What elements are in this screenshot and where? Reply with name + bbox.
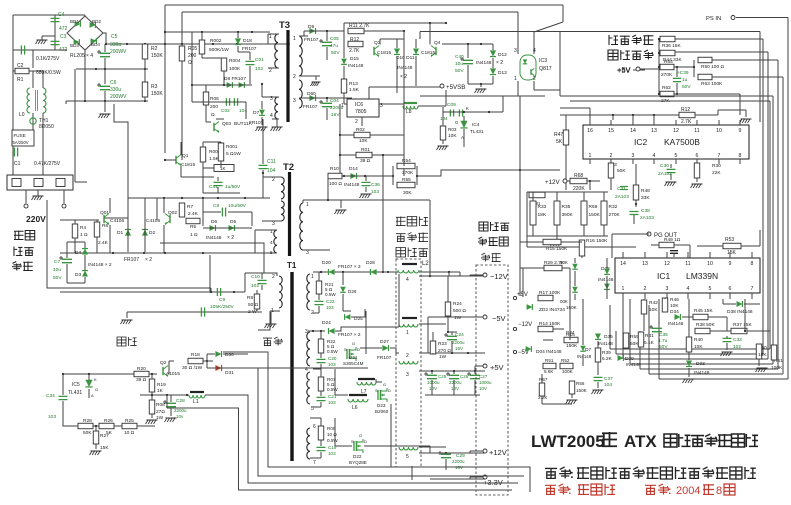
svg-text:+5V: +5V (490, 363, 504, 372)
svg-text:PS IN: PS IN (706, 16, 721, 22)
svg-text:5: 5 (675, 153, 678, 159)
svg-text:10 Ω: 10 Ω (327, 432, 337, 437)
svg-text:0.5W: 0.5W (325, 292, 336, 297)
svg-text:2: 2 (644, 286, 647, 292)
svg-text:D7: D7 (253, 110, 259, 116)
svg-text:10V: 10V (479, 386, 487, 391)
svg-text:30K: 30K (403, 190, 412, 196)
svg-text:IN4148: IN4148 (476, 60, 492, 66)
svg-text:15K: 15K (727, 250, 737, 256)
svg-text:8: 8 (739, 153, 742, 159)
svg-text:R38 50K: R38 50K (696, 322, 715, 328)
svg-text:200WV: 200WV (110, 94, 127, 100)
svg-text:0.1K/275V: 0.1K/275V (36, 56, 60, 62)
svg-text:R1: R1 (17, 77, 24, 83)
svg-text:10u: 10u (455, 61, 463, 67)
svg-text:330u: 330u (110, 87, 121, 93)
svg-text:0.5W: 0.5W (327, 387, 338, 392)
svg-text:IN4148: IN4148 (577, 354, 592, 359)
svg-text:R001: R001 (226, 144, 238, 150)
svg-text:C05: C05 (330, 36, 339, 42)
svg-text:1: 1 (406, 330, 409, 336)
svg-text:D: D (364, 439, 367, 444)
svg-text:C1815: C1815 (421, 50, 435, 56)
svg-text:ZD2 IN4734: ZD2 IN4734 (539, 307, 565, 313)
svg-text:D18: D18 (243, 38, 252, 44)
svg-text:200WV: 200WV (110, 49, 127, 55)
svg-text:C02: C02 (221, 108, 230, 114)
svg-text:14: 14 (620, 261, 626, 267)
svg-text:D30: D30 (225, 352, 234, 358)
svg-text:50K: 50K (560, 260, 568, 265)
svg-text:Q03: Q03 (222, 121, 231, 127)
svg-text:R52: R52 (561, 358, 570, 363)
svg-text:C27: C27 (479, 374, 488, 379)
svg-text:7: 7 (751, 286, 754, 292)
svg-text:D20: D20 (322, 260, 331, 266)
svg-text:8: 8 (716, 485, 722, 497)
svg-text:2: 2 (272, 274, 275, 280)
svg-text:13: 13 (651, 128, 657, 134)
svg-text:Q2: Q2 (160, 360, 167, 366)
svg-text:D: D (357, 347, 360, 352)
svg-text:D27: D27 (380, 339, 389, 345)
svg-text:S305C4M: S305C4M (343, 361, 364, 366)
svg-text:D31: D31 (225, 370, 234, 376)
svg-text:FUSE: FUSE (14, 133, 26, 138)
svg-text:3: 3 (406, 372, 409, 378)
svg-text:−5V: −5V (492, 314, 506, 323)
svg-text:6: 6 (729, 286, 732, 292)
svg-text:16: 16 (587, 128, 593, 134)
svg-text:A1015: A1015 (166, 371, 180, 377)
svg-text:IN4148: IN4148 (598, 341, 613, 346)
svg-text:1W: 1W (439, 354, 447, 360)
svg-text:D04 IN4148: D04 IN4148 (536, 349, 562, 355)
svg-text:4: 4 (653, 153, 656, 159)
svg-text:150K: 150K (566, 343, 578, 349)
svg-text:Q4: Q4 (434, 40, 441, 46)
svg-text:50V: 50V (682, 84, 691, 90)
svg-text:11: 11 (694, 128, 699, 134)
svg-text:L1: L1 (193, 399, 199, 405)
svg-text:D4: D4 (75, 250, 81, 256)
svg-text:103: 103 (328, 362, 336, 367)
svg-text:C28: C28 (176, 398, 185, 404)
svg-text:T1: T1 (287, 261, 297, 270)
svg-text:R16 150K: R16 150K (586, 238, 608, 244)
svg-text:R48: R48 (641, 188, 650, 194)
svg-text:R32: R32 (609, 204, 618, 210)
svg-text:R36 15K: R36 15K (662, 43, 681, 49)
svg-text:16V: 16V (331, 112, 340, 118)
svg-text:R24: R24 (453, 301, 462, 307)
svg-text:3: 3 (666, 286, 669, 292)
svg-text:6: 6 (696, 153, 699, 159)
svg-text:10: 10 (716, 128, 722, 134)
svg-text:R39: R39 (602, 350, 611, 356)
svg-text:R27: R27 (100, 433, 109, 439)
svg-text:220V: 220V (26, 214, 46, 224)
svg-text:C04: C04 (330, 98, 339, 104)
svg-text:R15 150K: R15 150K (546, 246, 568, 252)
svg-text:C34: C34 (46, 393, 55, 399)
svg-text:R19: R19 (157, 382, 166, 388)
svg-text:1 Ω: 1 Ω (190, 232, 198, 238)
svg-text:10 Ω: 10 Ω (124, 430, 135, 436)
svg-text:BUT11A: BUT11A (234, 121, 253, 127)
svg-text:8D050: 8D050 (39, 124, 54, 130)
svg-text:IN4148: IN4148 (206, 235, 222, 241)
svg-text:D3: D3 (75, 272, 81, 278)
svg-text:5A/250V: 5A/250V (13, 140, 29, 145)
svg-text:1K: 1K (157, 388, 164, 394)
svg-text:BYQ28E: BYQ28E (349, 460, 367, 465)
svg-text:D14: D14 (349, 166, 358, 172)
svg-text:FR107 × 3: FR107 × 3 (338, 264, 361, 270)
svg-text:4: 4 (533, 48, 536, 54)
svg-text:2: 2 (355, 119, 358, 125)
svg-text:2.2K: 2.2K (538, 395, 548, 400)
svg-text::: : (568, 485, 572, 497)
svg-text:L8: L8 (406, 109, 412, 115)
svg-text:C6: C6 (110, 80, 117, 86)
svg-text:1: 1 (341, 103, 344, 109)
svg-text:2 W: 2 W (248, 309, 257, 315)
svg-text:1u: 1u (682, 77, 688, 83)
svg-text:IC3: IC3 (539, 58, 547, 64)
svg-text:472: 472 (59, 26, 68, 32)
svg-text:D: D (388, 388, 391, 393)
svg-text:100K: 100K (229, 66, 241, 72)
svg-text:C38: C38 (641, 208, 650, 214)
svg-text:10u: 10u (53, 267, 61, 273)
svg-text:00K: 00K (560, 299, 568, 304)
svg-text:270K: 270K (609, 212, 621, 218)
svg-text:5: 5 (709, 286, 712, 292)
svg-text:C10: C10 (251, 274, 260, 280)
svg-text:R13: R13 (349, 81, 358, 87)
svg-text:D24: D24 (322, 320, 331, 326)
svg-text:1: 1 (622, 286, 625, 292)
svg-text:K: K (94, 377, 97, 382)
svg-text:33K: 33K (641, 195, 650, 201)
svg-text:R7: R7 (187, 204, 193, 210)
svg-text:D21: D21 (349, 355, 358, 360)
svg-text:C5: C5 (111, 34, 118, 40)
svg-text:50 Ω: 50 Ω (248, 302, 259, 308)
svg-text:50K: 50K (617, 168, 626, 174)
svg-text:10u/50V: 10u/50V (228, 203, 247, 209)
svg-text:10: 10 (707, 261, 713, 267)
svg-text:D2: D2 (149, 230, 155, 236)
svg-text:R41: R41 (645, 333, 654, 339)
svg-text:1000u: 1000u (479, 380, 492, 385)
svg-text:C36: C36 (371, 182, 380, 188)
svg-text:R004: R004 (229, 58, 241, 64)
svg-text:1: 1 (514, 76, 517, 82)
svg-text:R63 100K: R63 100K (701, 81, 723, 87)
svg-text:16V: 16V (455, 346, 463, 351)
svg-text:R30: R30 (712, 163, 721, 169)
svg-text:D23: D23 (377, 403, 386, 408)
svg-text:FR107: FR107 (377, 355, 392, 361)
svg-text:7: 7 (313, 460, 316, 466)
svg-text:TL431: TL431 (68, 390, 82, 396)
svg-text:R56: R56 (576, 381, 585, 386)
svg-text:18K: 18K (538, 212, 547, 218)
svg-text:2.7K: 2.7K (349, 48, 360, 54)
svg-text:6.2K: 6.2K (602, 356, 613, 362)
svg-text:102: 102 (733, 344, 741, 350)
svg-text:IN4148: IN4148 (344, 182, 360, 188)
svg-text:1u/50V: 1u/50V (225, 184, 241, 190)
svg-text:C1815: C1815 (181, 162, 195, 168)
svg-text:R2: R2 (151, 46, 158, 52)
svg-text:C1815: C1815 (377, 50, 391, 56)
svg-text:D28: D28 (366, 260, 375, 266)
svg-text:G: G (359, 433, 362, 438)
svg-text:10K: 10K (359, 138, 368, 144)
svg-text:D38 IN4148: D38 IN4148 (727, 309, 753, 315)
svg-text:2.7K: 2.7K (681, 119, 692, 125)
svg-text:S: S (344, 347, 347, 352)
svg-text:R53: R53 (725, 237, 734, 243)
svg-text:103: 103 (326, 305, 334, 310)
svg-text:39 Ω: 39 Ω (136, 377, 147, 383)
svg-text:100K: 100K (562, 369, 574, 374)
svg-text:103: 103 (328, 400, 336, 405)
svg-text:+5V: +5V (517, 292, 528, 298)
svg-text:1000u: 1000u (427, 380, 440, 385)
svg-text:104: 104 (604, 382, 612, 388)
svg-text:+5VSB: +5VSB (446, 84, 465, 91)
svg-text:102: 102 (255, 66, 263, 72)
svg-text:5.6K: 5.6K (544, 369, 554, 374)
svg-text:10V: 10V (429, 386, 437, 391)
svg-text:FR107: FR107 (304, 37, 319, 43)
svg-text:104: 104 (440, 116, 448, 121)
svg-text:IC4: IC4 (472, 122, 480, 128)
svg-text:2.4K: 2.4K (98, 240, 109, 246)
svg-text:2: 2 (610, 153, 613, 159)
svg-text:D8 FR107: D8 FR107 (224, 76, 246, 82)
svg-text:R8: R8 (247, 295, 253, 301)
svg-text:9: 9 (729, 261, 732, 267)
svg-text:Q1: Q1 (182, 153, 189, 159)
svg-text:104: 104 (267, 168, 276, 174)
svg-text:S: S (375, 388, 378, 393)
svg-text:D10 D11: D10 D11 (396, 55, 415, 61)
svg-text:C09: C09 (447, 102, 456, 108)
svg-text:IN4148: IN4148 (598, 277, 614, 283)
svg-text:0.5W: 0.5W (327, 349, 338, 354)
svg-text:D15: D15 (350, 56, 359, 62)
svg-text:C01: C01 (255, 57, 264, 63)
svg-text:R5: R5 (190, 224, 196, 230)
svg-text:2: 2 (272, 177, 275, 183)
svg-text:50V: 50V (331, 50, 340, 56)
svg-text:IC6: IC6 (355, 102, 363, 108)
svg-text:1W: 1W (454, 315, 462, 321)
svg-text:D13: D13 (498, 70, 507, 76)
svg-text:14: 14 (630, 128, 636, 134)
svg-text:L6: L6 (352, 405, 358, 411)
svg-text:C37: C37 (604, 376, 613, 382)
svg-text:4.7u: 4.7u (658, 338, 668, 344)
svg-text:4: 4 (687, 286, 690, 292)
svg-text:FR107: FR107 (242, 46, 257, 52)
svg-text:150K: 150K (151, 91, 163, 97)
svg-text:1.5K: 1.5K (349, 87, 360, 93)
svg-text:D6: D6 (211, 219, 217, 225)
svg-text:R08: R08 (156, 402, 165, 408)
svg-text:KA7500B: KA7500B (664, 137, 700, 147)
svg-text:FR107: FR107 (303, 104, 318, 110)
svg-text:12: 12 (664, 261, 670, 267)
svg-text:C4106: C4106 (146, 218, 160, 224)
svg-text:270K: 270K (661, 72, 673, 78)
svg-text:3: 3 (293, 98, 296, 104)
svg-text:R10: R10 (330, 166, 339, 172)
svg-text:5: 5 (406, 454, 409, 460)
svg-text:Ω: Ω (211, 112, 215, 118)
svg-text:A: A (91, 393, 94, 398)
svg-text:× 2: × 2 (496, 60, 503, 66)
svg-text:5 Ω1W: 5 Ω1W (226, 151, 241, 157)
svg-text:R46: R46 (670, 297, 679, 303)
svg-text:6: 6 (313, 424, 316, 430)
svg-text:1: 1 (311, 274, 314, 280)
svg-text:R57: R57 (539, 377, 548, 382)
svg-text:1: 1 (293, 36, 296, 42)
svg-text:R4: R4 (80, 225, 86, 231)
svg-text:15K: 15K (100, 445, 109, 451)
svg-text:C25: C25 (438, 374, 447, 379)
svg-text:T2: T2 (283, 162, 294, 173)
svg-text:13: 13 (642, 261, 648, 267)
svg-text:R6: R6 (102, 223, 108, 229)
svg-text:IC2: IC2 (634, 137, 648, 147)
svg-text:IN4148: IN4148 (668, 321, 684, 327)
svg-text:D26: D26 (348, 289, 357, 294)
svg-text:3: 3 (514, 48, 517, 54)
svg-text:330u: 330u (110, 42, 121, 48)
svg-text:50K: 50K (83, 430, 92, 436)
svg-text:L0: L0 (19, 112, 25, 118)
svg-text:+5V: +5V (617, 65, 631, 74)
svg-text:5.1K: 5.1K (644, 340, 655, 346)
svg-text:50V: 50V (455, 68, 464, 74)
svg-text:IN4148: IN4148 (348, 63, 364, 69)
svg-text:C33: C33 (733, 337, 742, 343)
svg-text:BD2: BD2 (92, 19, 101, 24)
svg-text::: : (570, 469, 574, 481)
svg-text:200: 200 (210, 104, 218, 110)
svg-text:1: 1 (589, 153, 592, 159)
svg-text:IN4148: IN4148 (694, 370, 710, 376)
svg-text:150K: 150K (566, 305, 578, 310)
svg-text:2200u: 2200u (174, 408, 187, 413)
svg-text:C1: C1 (14, 161, 21, 167)
svg-text:10K: 10K (694, 344, 703, 350)
svg-text:2A103: 2A103 (615, 194, 629, 200)
svg-text:50V: 50V (659, 344, 668, 350)
svg-text:RL205: RL205 (70, 53, 85, 59)
svg-text:2200u: 2200u (452, 340, 465, 345)
svg-text:2: 2 (293, 74, 296, 80)
svg-text:4: 4 (270, 240, 273, 246)
svg-text:IN4148: IN4148 (397, 65, 413, 71)
svg-text:103: 103 (328, 451, 336, 456)
svg-text:C35: C35 (659, 332, 668, 338)
svg-text:−12V: −12V (490, 272, 508, 281)
svg-text:C24: C24 (455, 332, 464, 338)
svg-text:R03: R03 (448, 127, 457, 132)
svg-text:7805: 7805 (355, 109, 367, 115)
svg-text:B2060: B2060 (375, 409, 389, 414)
svg-text:D5: D5 (230, 219, 236, 225)
svg-text:R51: R51 (545, 358, 554, 363)
svg-text:2: 2 (406, 353, 409, 359)
svg-text:C7: C7 (54, 259, 60, 265)
svg-text:R45 15K: R45 15K (694, 308, 713, 314)
svg-text:1 Ω: 1 Ω (80, 232, 88, 238)
svg-text:103: 103 (371, 189, 379, 195)
svg-text:150K: 150K (151, 53, 163, 59)
svg-text:2200u: 2200u (449, 380, 462, 385)
svg-text:Q817: Q817 (539, 66, 552, 72)
svg-text:× 2: × 2 (145, 257, 152, 263)
svg-text:15: 15 (608, 128, 614, 134)
svg-text:2004: 2004 (676, 485, 700, 497)
svg-text:C20: C20 (328, 356, 337, 361)
svg-text:BD3: BD3 (70, 43, 79, 48)
svg-text:2A103: 2A103 (640, 215, 654, 221)
svg-text:220K: 220K (573, 186, 585, 192)
svg-text:Ω: Ω (188, 60, 192, 66)
svg-text:G: G (95, 387, 98, 392)
svg-text:FR107: FR107 (124, 257, 139, 263)
svg-text:R06: R06 (210, 96, 219, 102)
svg-text:C9: C9 (219, 297, 225, 303)
svg-text:270K: 270K (402, 170, 414, 176)
svg-text:C40: C40 (455, 54, 464, 60)
svg-text:× 2: × 2 (227, 235, 234, 241)
svg-text:C22: C22 (326, 299, 335, 304)
svg-text:0.47K/275V: 0.47K/275V (34, 161, 61, 167)
svg-text:−12V: −12V (518, 322, 532, 328)
svg-text:G: G (383, 382, 386, 387)
svg-text:K: K (466, 106, 469, 111)
svg-text:10v: 10v (176, 414, 184, 419)
svg-text:R69: R69 (589, 204, 598, 210)
svg-text:2.4K: 2.4K (188, 211, 199, 217)
svg-text:BD4: BD4 (91, 42, 100, 47)
svg-text:+12V: +12V (545, 179, 560, 186)
svg-text:C30: C30 (660, 163, 669, 169)
svg-text:10K: 10K (670, 303, 679, 309)
svg-text:C4106: C4106 (110, 218, 124, 224)
svg-text:105K/250V: 105K/250V (210, 304, 235, 310)
svg-text:39 Ω: 39 Ω (360, 158, 371, 164)
svg-text:27Ω: 27Ω (156, 409, 165, 415)
svg-text:G: G (352, 341, 355, 346)
svg-text:D33: D33 (696, 361, 705, 367)
svg-text:102: 102 (251, 283, 259, 289)
svg-text:1: 1 (306, 202, 309, 208)
svg-text:+C39: +C39 (677, 70, 689, 76)
